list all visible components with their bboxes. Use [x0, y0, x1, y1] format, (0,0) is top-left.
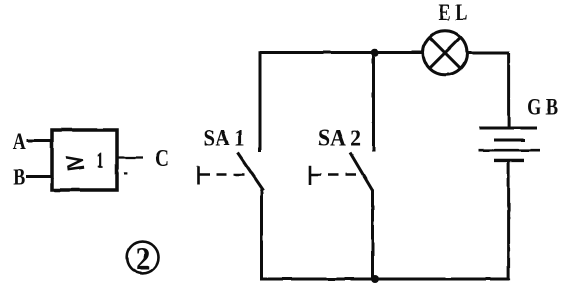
- wire lamp to right corner: [467, 52, 509, 55]
- svg-text:B: B: [13, 164, 25, 189]
- ink speck near C: [124, 172, 127, 174]
- label GB: [527, 95, 558, 120]
- label A: [13, 129, 26, 154]
- middle branch upper wire: [372, 53, 375, 153]
- battery GB plate 3 long: [479, 149, 540, 152]
- battery GB plate 2 short: [494, 139, 525, 142]
- figure number 2 circle: [127, 242, 159, 278]
- label SA 1: [204, 126, 245, 151]
- right branch lower wire: [507, 161, 510, 280]
- svg-text:SA 2: SA 2: [318, 126, 361, 151]
- switch SA1 actuator dashed link: [199, 173, 246, 175]
- junction dot top: [371, 49, 379, 57]
- svg-text:1: 1: [97, 148, 103, 172]
- svg-text:C: C: [155, 146, 169, 172]
- wire output C: [116, 156, 143, 158]
- switch SA1 blade: [238, 153, 264, 191]
- junction dot bottom: [371, 275, 379, 283]
- label C: [155, 146, 169, 172]
- switch SA2 actuator dashed link: [311, 173, 360, 175]
- svg-text:E L: E L: [439, 0, 468, 25]
- battery GB plate 4 short: [494, 159, 524, 162]
- or-gate U1 box: [52, 130, 117, 190]
- svg-text:A: A: [13, 129, 26, 154]
- wire input B: [26, 175, 53, 178]
- svg-text:SA 1: SA 1: [204, 126, 245, 151]
- right branch upper wire: [507, 53, 510, 128]
- left branch lower wire: [260, 190, 263, 280]
- lamp EL circle: [423, 31, 467, 75]
- left branch upper wire: [259, 51, 262, 152]
- or-gate U1 label >=1: [64, 148, 103, 175]
- switch SA2 actuator tick: [309, 166, 312, 185]
- label B: [13, 164, 25, 189]
- top wire: [260, 51, 423, 54]
- middle branch lower wire: [371, 190, 374, 280]
- label SA 2: [318, 126, 361, 151]
- switch SA2 blade: [350, 153, 373, 191]
- battery GB plate 1 long: [479, 127, 537, 130]
- svg-text:≥: ≥: [64, 148, 85, 175]
- label EL: [439, 0, 468, 25]
- svg-text:2: 2: [136, 242, 151, 278]
- switch SA1 actuator tick: [197, 166, 200, 185]
- wire input A: [26, 139, 53, 142]
- bottom wire: [260, 278, 509, 281]
- svg-text:G B: G B: [527, 95, 558, 120]
